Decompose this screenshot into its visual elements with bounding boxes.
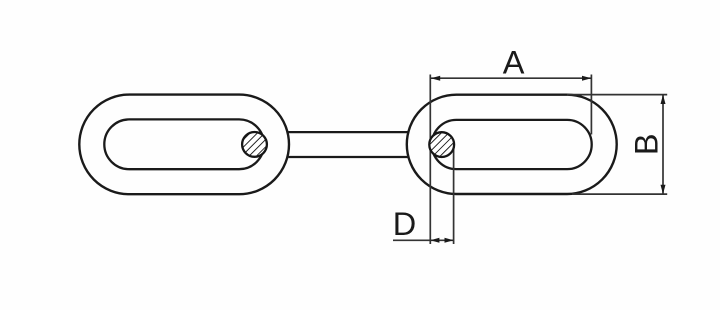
extension line of D (right, x=453.6) xyxy=(453,145,455,244)
arrowhead D right (tip at right ext line, pointing right) xyxy=(445,238,454,243)
arrowhead B bottom xyxy=(661,185,666,194)
extension line shared by A and D (left, x=430) xyxy=(429,75,431,245)
extension line of A (right, ends inside link) xyxy=(590,75,592,135)
dimension line A xyxy=(431,77,592,79)
right link wire cross-section (hatched circle) xyxy=(429,132,454,157)
dimension line D (with left leader) xyxy=(393,239,454,241)
svg-text:D: D xyxy=(393,206,416,242)
left link inner outline xyxy=(104,119,264,169)
right link inner outline xyxy=(432,120,592,169)
right link outer outline xyxy=(407,95,617,194)
svg-text:B: B xyxy=(629,133,665,155)
left link outer outline xyxy=(79,95,289,195)
dimension line B xyxy=(662,95,664,195)
arrowhead A left xyxy=(431,76,440,81)
left link wire cross-section (hatched circle) xyxy=(242,132,267,157)
arrowhead D left (tip at left ext line, pointing left) xyxy=(430,238,439,243)
arrowhead A right xyxy=(582,76,591,81)
extension line B top xyxy=(567,94,667,96)
svg-text:A: A xyxy=(503,45,525,81)
extension line B bottom xyxy=(572,193,667,195)
middle link (edge-on) bottom wire line xyxy=(289,156,409,158)
arrowhead B top xyxy=(661,95,666,104)
middle link (edge-on) top wire line xyxy=(289,131,409,133)
